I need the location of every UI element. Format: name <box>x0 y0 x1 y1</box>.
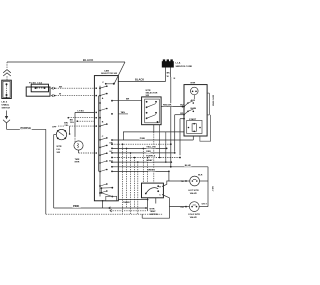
wire drop e <box>137 161 139 214</box>
timer cam line <box>95 82 104 196</box>
svg-text:RED-BK: RED-BK <box>163 104 172 106</box>
motor protector circle <box>191 87 199 99</box>
wire bottom dashed long <box>46 213 163 215</box>
timer top terminal <box>105 83 115 85</box>
svg-text:SWITCH: SWITCH <box>2 108 11 110</box>
svg-text:115V 60HZ: 115V 60HZ <box>211 95 213 107</box>
svg-text:W-R: W-R <box>198 174 203 176</box>
wire bk-yel to timer <box>58 123 94 135</box>
label cam selector sw <box>101 69 118 75</box>
svg-text:PU: PU <box>181 207 184 209</box>
motor winding contacts <box>180 99 196 120</box>
timer bottom contacts <box>101 187 114 198</box>
wire hot valve to bus <box>200 180 209 182</box>
wire temp sw bottom leg b <box>155 198 157 204</box>
svg-text:GR-Y: GR-Y <box>202 204 208 206</box>
wire selector bottom <box>123 125 184 140</box>
svg-text:BLACK: BLACK <box>83 58 94 62</box>
wire row8 green to hot valve <box>111 169 170 181</box>
wire purple drop to bottom <box>45 129 47 214</box>
wire neutral bus <box>170 77 172 167</box>
wire motor bottom to row1 <box>192 136 194 140</box>
fuse F1 <box>26 81 50 96</box>
wire drop b <box>126 148 128 208</box>
wire fuse to timer W <box>52 94 95 97</box>
plug prong W neutral <box>167 68 176 81</box>
wire motor left drop A <box>175 115 184 152</box>
wire dashed selector down to temp switch <box>153 132 155 183</box>
wire red-bk selector to motor <box>161 104 184 107</box>
svg-text:VALVE: VALVE <box>190 192 198 195</box>
svg-text:WTR: WTR <box>57 146 62 148</box>
wire H to hot valve <box>162 181 186 187</box>
timer T1 box <box>94 76 118 201</box>
svg-text:TN: TN <box>181 181 184 183</box>
motor right bracket 115V <box>207 93 213 115</box>
label lid switch <box>2 102 11 110</box>
svg-text:GY: GY <box>109 151 113 153</box>
wire row5 purple <box>111 155 181 158</box>
wire bottom return <box>142 207 169 219</box>
label water temp switch <box>150 208 159 216</box>
plug prong BK <box>166 68 171 82</box>
svg-text:GREEN: GREEN <box>147 169 155 171</box>
wire motor left drop B <box>180 119 184 156</box>
svg-text:PINK: PINK <box>73 204 79 208</box>
svg-text:OR: OR <box>109 142 113 144</box>
wire row3 yellow <box>111 146 167 149</box>
svg-text:RED: RED <box>146 151 151 153</box>
svg-text:UNBAL: UNBAL <box>2 104 10 107</box>
wire purple <box>7 123 46 130</box>
wire temp sw bottom leg a <box>147 198 149 211</box>
wire bottom pink <box>54 204 147 209</box>
svg-text:CAM: CAM <box>104 69 109 72</box>
svg-text:YELLOW: YELLOW <box>146 146 156 148</box>
wire selector drop mid a <box>159 125 161 159</box>
svg-text:BK: BK <box>59 86 63 88</box>
wire black plug to timer <box>118 77 165 81</box>
wire water level sw left to bottom <box>54 135 57 209</box>
svg-text:COLD WTR: COLD WTR <box>188 214 200 216</box>
wire drop f to temp switch <box>143 148 145 184</box>
svg-text:BLUE: BLUE <box>185 165 191 167</box>
svg-text:MTR: MTR <box>75 162 80 164</box>
wire row4 red <box>109 151 175 154</box>
svg-text:SERVICE CORD: SERVICE CORD <box>176 66 193 68</box>
wire timer motor bottom to timer <box>79 150 95 153</box>
timer motor M2 <box>74 141 83 164</box>
arrow down from lid switch <box>3 111 10 123</box>
svg-text:BK: BK <box>70 119 74 121</box>
svg-text:BLACK: BLACK <box>135 77 144 81</box>
hot water valve V1 <box>181 174 203 195</box>
wire dashed stub into timer <box>68 117 95 122</box>
wire timer bottom down <box>102 200 104 208</box>
wire valve bus <box>208 167 213 207</box>
wire drop d <box>134 157 136 208</box>
svg-text:LT BU: LT BU <box>78 110 85 112</box>
svg-text:HOT WTR: HOT WTR <box>188 190 199 192</box>
wire motor frame loop <box>200 115 211 141</box>
wire row1 pink <box>111 138 193 141</box>
water temp switch S4 <box>142 183 164 198</box>
wire row6 gray <box>109 159 172 163</box>
motor M1 box <box>184 83 207 136</box>
svg-text:TAN: TAN <box>121 111 126 114</box>
wire drop g to temp switch <box>147 157 149 183</box>
timer inner bottom box <box>106 196 117 201</box>
wire drop a <box>122 143 124 214</box>
lid switch dashed link up <box>3 62 11 80</box>
svg-text:BR: BR <box>126 99 130 101</box>
svg-text:YEL: YEL <box>64 125 69 127</box>
wire fuse to timer BK <box>52 86 95 89</box>
wire C to cold valve <box>162 195 186 207</box>
svg-text:BU: BU <box>180 105 184 107</box>
wire drop c <box>130 152 132 214</box>
svg-text:YEL: YEL <box>70 122 75 124</box>
svg-text:START: START <box>189 118 197 121</box>
lid switch S1 <box>2 80 12 98</box>
wire selector drop mid b <box>165 132 167 163</box>
wire timer to selector <box>111 99 142 102</box>
svg-text:TEMP: TEMP <box>150 211 157 213</box>
wire cold valve to bus <box>199 206 208 208</box>
svg-text:PURPLE: PURPLE <box>21 126 32 130</box>
water level switch S2 <box>52 126 67 154</box>
cold water valve V2 <box>181 202 208 219</box>
svg-text:OFF: OFF <box>52 126 57 128</box>
wire row2 dashed <box>109 142 171 145</box>
power cord plug P1 <box>162 59 193 67</box>
svg-text:TMR: TMR <box>75 159 80 161</box>
wire diagonal cord drop to timer terminal <box>114 62 125 84</box>
svg-text:SELECTOR SW: SELECTOR SW <box>101 73 118 75</box>
wire row7 blue to valve bus <box>111 165 208 168</box>
selector switch S3 <box>142 90 162 125</box>
svg-text:LID &: LID & <box>2 102 8 104</box>
svg-text:L1-A: L1-A <box>176 62 181 65</box>
svg-text:GR-Y: GR-Y <box>211 186 213 192</box>
svg-text:MTR: MTR <box>191 83 196 85</box>
wire L1 top black <box>7 58 125 62</box>
timer contact blades <box>100 85 108 193</box>
svg-text:VALVE: VALVE <box>190 216 198 219</box>
svg-text:LVL: LVL <box>57 149 62 151</box>
svg-text:PINK: PINK <box>140 138 146 140</box>
wire bottom stub dashed <box>110 210 148 212</box>
motor start box <box>187 118 202 134</box>
svg-text:WTR: WTR <box>150 208 155 210</box>
svg-text:BU: BU <box>109 160 113 162</box>
svg-text:FUSE 15A: FUSE 15A <box>29 81 42 84</box>
wire tan stub <box>111 111 128 115</box>
wire timer bottom right <box>118 199 148 201</box>
wire lt bu timer to timer motor <box>70 110 95 142</box>
svg-text:BK: BK <box>167 73 171 75</box>
